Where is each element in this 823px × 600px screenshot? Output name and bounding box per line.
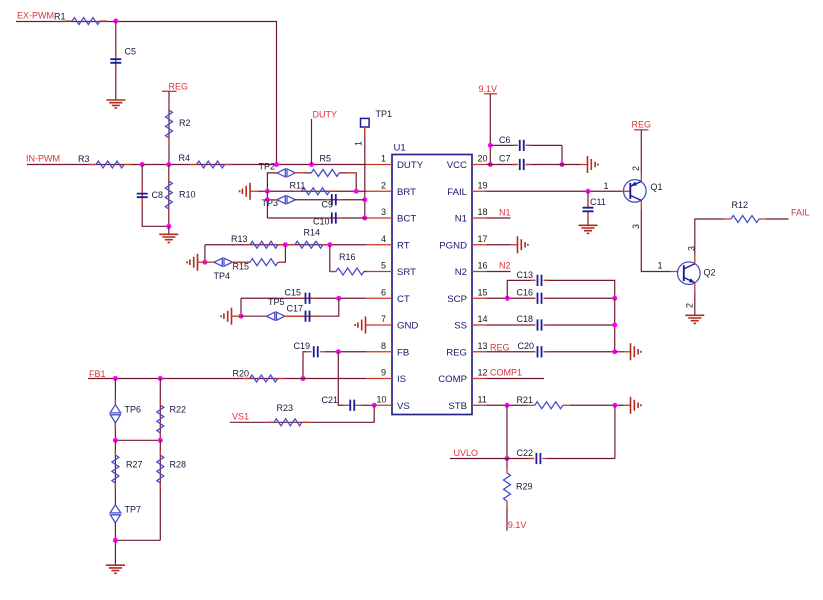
wire TP7 to bottom row (114, 522, 116, 540)
op-amp U1 IC body (392, 155, 472, 415)
svg-text:9.1V: 9.1V (479, 84, 498, 94)
pin 4 stub (366, 244, 392, 246)
junction R22/R28 (158, 438, 163, 443)
svg-text:R23: R23 (277, 403, 294, 413)
svg-text:IN-PWM: IN-PWM (26, 154, 60, 164)
wire TP6 to node row (114, 422, 116, 440)
svg-text:19: 19 (478, 180, 488, 190)
wire to bottom ground (114, 540, 116, 565)
test point TP4 (205, 261, 214, 263)
capacitor C8 (141, 188, 143, 203)
junction R2/R10 (166, 162, 171, 167)
net label N1 (487, 217, 511, 219)
resistor R12 (724, 218, 766, 220)
svg-text:17: 17 (478, 234, 488, 244)
resistor R27 (114, 440, 116, 505)
junction TP1/C9 (362, 197, 367, 202)
svg-text:SCP: SCP (447, 294, 467, 305)
svg-text:C15: C15 (285, 288, 302, 298)
junction C18 right (612, 323, 617, 328)
svg-text:2: 2 (631, 166, 641, 171)
junction C19/IS row (301, 376, 306, 381)
svg-text:R13: R13 (231, 234, 248, 244)
wire Q2 emitter to ground (694, 283, 696, 292)
capacitor C21 (344, 404, 361, 406)
svg-text:BRT: BRT (397, 187, 416, 198)
pin 8 stub (366, 351, 392, 353)
ground left of TP4 (187, 254, 197, 271)
junction FB1/R22 (158, 376, 163, 381)
wire C8 branch (142, 165, 169, 227)
wire SCP row (487, 297, 615, 299)
capacitor C10 (325, 217, 343, 219)
wire to ground (168, 226, 170, 234)
wire FB row (325, 351, 366, 353)
svg-text:R22: R22 (170, 404, 187, 414)
svg-text:20: 20 (478, 154, 488, 164)
junction TP6/R27 (113, 438, 118, 443)
capacitor C7 (487, 164, 563, 166)
junction C20 right (612, 349, 617, 354)
wire BCT row (267, 217, 366, 219)
wire R13 left corner down (204, 245, 206, 262)
svg-text:3: 3 (381, 207, 386, 217)
ground bottom left (106, 565, 125, 573)
junction C16 right (612, 296, 617, 301)
svg-text:R12: R12 (732, 200, 749, 210)
svg-text:1: 1 (658, 261, 663, 271)
wire VS1 row (230, 405, 374, 422)
ground at PGND (487, 244, 511, 246)
wire bottom row (115, 539, 160, 541)
svg-text:R29: R29 (516, 482, 533, 492)
svg-text:R28: R28 (170, 460, 187, 470)
pin 12 stub (472, 378, 487, 380)
wire C22 right column (614, 405, 616, 458)
test point TP7 (110, 505, 121, 523)
wire R21 to ground (570, 404, 624, 406)
wire to VCC ground (562, 164, 581, 166)
resistor R29 (506, 459, 508, 468)
pin 14 stub (472, 324, 487, 326)
pin 16 stub (472, 271, 487, 273)
capacitor C20 (487, 351, 615, 353)
svg-text:VCC: VCC (447, 160, 467, 171)
svg-text:RT: RT (397, 240, 410, 251)
svg-text:12: 12 (478, 368, 488, 378)
ground under C5 (106, 100, 125, 108)
pin numbers left (376, 154, 386, 405)
svg-text:FB1: FB1 (89, 369, 106, 379)
pin 13 stub (472, 351, 487, 353)
svg-text:UVLO: UVLO (454, 448, 479, 458)
junction VS/R23 (372, 403, 377, 408)
svg-text:R15: R15 (233, 262, 250, 272)
wire R16 branch (330, 245, 336, 272)
transistor Q2 (678, 262, 701, 285)
svg-text:9: 9 (381, 368, 386, 378)
svg-text:TP4: TP4 (214, 271, 231, 281)
svg-text:C18: C18 (517, 314, 534, 324)
svg-text:C11: C11 (590, 197, 606, 207)
svg-text:C13: C13 (517, 270, 534, 280)
svg-text:3: 3 (631, 224, 641, 229)
junction TP2 net / ground (265, 189, 270, 194)
resistor R5 (294, 173, 356, 191)
svg-text:R11: R11 (290, 181, 306, 191)
resistor R20 (243, 378, 285, 380)
resistor R14 (288, 244, 330, 246)
resistor R4 (190, 164, 232, 166)
junction C7 right (560, 162, 565, 167)
svg-text:C20: C20 (518, 341, 535, 351)
svg-text:C22: C22 (517, 448, 534, 458)
pin 1 stub (366, 164, 392, 166)
junction SCP/C13 (505, 296, 510, 301)
svg-text:C16: C16 (517, 287, 534, 297)
junction R10 bottom (166, 224, 171, 229)
capacitor C11 (587, 191, 589, 225)
ground left of R11 (240, 183, 250, 200)
capacitor C17 (284, 298, 339, 316)
wire TP1 down (364, 127, 366, 218)
junction C8 top (140, 162, 145, 167)
svg-text:SRT: SRT (397, 267, 416, 278)
svg-text:R14: R14 (304, 228, 321, 238)
wire TP3 to C9 (294, 199, 365, 201)
svg-text:11: 11 (478, 394, 487, 404)
resistor R28 (159, 440, 161, 540)
svg-text:13: 13 (478, 341, 488, 351)
svg-text:PGND: PGND (439, 240, 467, 251)
wire R29 down (506, 507, 508, 531)
junction C19/FB (336, 349, 341, 354)
svg-text:C21: C21 (322, 395, 339, 405)
svg-text:STB: STB (448, 401, 467, 412)
junction STB/R29 (505, 403, 510, 408)
svg-text:REG: REG (446, 347, 467, 358)
svg-text:C7: C7 (499, 154, 511, 164)
capacitor C15 (299, 297, 317, 299)
junction TP1/C10 (362, 216, 367, 221)
svg-text:FB: FB (397, 347, 409, 358)
svg-text:1: 1 (604, 181, 609, 191)
pin 15 stub (472, 297, 487, 299)
svg-text:Q1: Q1 (651, 182, 663, 192)
junction VCC (488, 162, 493, 167)
resistor R23 (267, 421, 309, 423)
pin 20 stub (472, 164, 487, 166)
pin names left (397, 160, 424, 412)
svg-text:REG: REG (169, 82, 189, 92)
junction C6 (488, 143, 493, 148)
svg-text:VS1: VS1 (232, 412, 249, 422)
wire STB column down (506, 405, 508, 458)
svg-text:TP5: TP5 (268, 297, 285, 307)
junction R13/R14 (283, 242, 288, 247)
wire DUTY (311, 119, 313, 165)
svg-text:GND: GND (397, 321, 418, 332)
net label COMP1 (487, 378, 545, 380)
pin names right (438, 160, 467, 412)
pin 17 stub (472, 244, 487, 246)
resistor R21 (528, 404, 570, 406)
pin 2 stub (366, 190, 392, 192)
junction TP5/ground (239, 314, 244, 319)
svg-text:R20: R20 (233, 369, 250, 379)
svg-text:C19: C19 (294, 341, 311, 351)
pin 10 stub (374, 404, 392, 406)
ground right of R21 (631, 397, 641, 414)
svg-text:9.1V: 9.1V (508, 520, 527, 530)
svg-text:U1: U1 (394, 143, 406, 154)
svg-text:TP6: TP6 (125, 404, 142, 414)
pin 3 stub (366, 217, 392, 219)
svg-text:EX-PWM: EX-PWM (17, 11, 54, 21)
wire ground column down to BCT row (266, 191, 268, 218)
wire RT row (205, 244, 366, 246)
ground left of TP5 (221, 308, 231, 325)
resistor R2 (168, 104, 170, 145)
junction R21 right (612, 403, 617, 408)
ground under Q2 (685, 315, 704, 323)
resistor R22 (159, 379, 161, 441)
pin 18 stub (472, 217, 487, 219)
junction R5/BRT (354, 189, 359, 194)
svg-text:DUTY: DUTY (397, 160, 424, 171)
wire C15 corner down to TP5 row (240, 298, 242, 316)
svg-text:SS: SS (454, 321, 467, 332)
capacitor C5 (115, 53, 117, 70)
wire C5 branch (115, 21, 117, 100)
wire Q2 collector up to R12 row (694, 255, 696, 264)
wire REG to row1 (168, 91, 170, 164)
resistor R16 (330, 271, 368, 273)
junction UVLO/R29 (505, 456, 510, 461)
svg-text:C6: C6 (499, 135, 511, 145)
svg-text:TP7: TP7 (125, 504, 142, 514)
junction EX-PWM/C5 (113, 19, 118, 24)
svg-text:R3: R3 (78, 154, 90, 164)
pin 11 stub (472, 404, 487, 406)
capacitor C22 (529, 458, 547, 460)
resistor R10 (168, 165, 170, 227)
wire BRT row (258, 190, 366, 192)
capacitor C9 (325, 199, 343, 201)
junction C17/CT (336, 296, 341, 301)
resistor R1 (65, 20, 107, 22)
svg-text:R27: R27 (126, 460, 143, 470)
wire right column down (614, 298, 616, 352)
svg-text:R21: R21 (517, 395, 534, 405)
wire UVLO row (450, 458, 615, 460)
ground under R10 (159, 234, 178, 242)
wire C6 right corner (561, 145, 563, 164)
svg-text:TP2: TP2 (259, 162, 276, 172)
pin 5 stub (366, 271, 392, 273)
wire 9.1V down (489, 94, 491, 165)
svg-text:2: 2 (685, 303, 695, 308)
wire FB branch down to C21 (338, 352, 344, 406)
svg-text:R16: R16 (339, 252, 356, 262)
resistor R3 (89, 164, 131, 166)
svg-text:REG: REG (490, 342, 510, 352)
ground at GND pin 7 (355, 317, 365, 334)
svg-text:N1: N1 (455, 214, 467, 225)
wire IN-PWM row to pin 1 (27, 164, 366, 166)
svg-text:Q2: Q2 (704, 268, 716, 278)
svg-text:IS: IS (397, 374, 406, 385)
wire CT row (241, 297, 366, 299)
wire REG to Q1 emitter (640, 130, 642, 173)
svg-text:1: 1 (381, 154, 386, 164)
svg-text:16: 16 (478, 261, 488, 271)
transistor Q1 (624, 180, 647, 203)
svg-text:1: 1 (354, 141, 364, 146)
svg-text:8: 8 (381, 341, 386, 351)
svg-text:C17: C17 (287, 304, 304, 314)
svg-text:18: 18 (478, 207, 488, 217)
svg-text:N1: N1 (499, 207, 511, 217)
ground right of C7 (588, 156, 598, 173)
svg-text:FAIL: FAIL (791, 208, 810, 218)
svg-text:BCT: BCT (397, 214, 416, 225)
svg-text:C8: C8 (152, 190, 164, 200)
test point TP1 (361, 118, 370, 127)
svg-text:COMP1: COMP1 (490, 368, 522, 378)
wire TP2 left to R11 row (267, 173, 277, 191)
junction EX-PWM column (274, 162, 279, 167)
svg-text:C9: C9 (322, 200, 334, 210)
svg-text:FAIL: FAIL (447, 187, 467, 198)
svg-text:VS: VS (397, 401, 410, 412)
wire STB row (487, 404, 528, 406)
wire IS row (88, 378, 366, 380)
wire EX-PWM row (16, 22, 277, 165)
resistor R15 (231, 245, 285, 262)
junction R14/R16 (327, 242, 332, 247)
svg-text:6: 6 (381, 287, 386, 297)
wire C21 to VS pin (361, 404, 374, 406)
svg-text:4: 4 (381, 234, 386, 244)
ground under C11 (579, 225, 598, 233)
net label N2 (487, 271, 511, 273)
wire Q1 collector down to Q2 base (640, 200, 642, 209)
svg-text:C10: C10 (313, 217, 330, 227)
ground right of C20 (615, 351, 624, 353)
pin 7 stub (366, 324, 393, 326)
junction TP3 (265, 197, 270, 202)
svg-text:R4: R4 (179, 153, 191, 163)
svg-text:N2: N2 (455, 267, 467, 278)
svg-text:R5: R5 (320, 154, 332, 164)
svg-text:7: 7 (381, 314, 386, 324)
svg-text:CT: CT (397, 294, 410, 305)
svg-text:R2: R2 (179, 118, 191, 128)
svg-text:2: 2 (381, 180, 386, 190)
pin 19 stub (472, 190, 487, 192)
svg-text:COMP: COMP (438, 374, 467, 385)
pin numbers right (478, 154, 488, 405)
junction FB1/TP6 (113, 376, 118, 381)
capacitor C18 (487, 324, 615, 326)
svg-text:R1: R1 (54, 12, 66, 22)
junction DUTY column (309, 162, 314, 167)
capacitor C13 (507, 280, 614, 298)
svg-text:TP1: TP1 (376, 109, 393, 119)
wire node row (115, 439, 160, 441)
wire FAIL row to Q1 (487, 190, 622, 192)
svg-text:5: 5 (381, 261, 386, 271)
junction C11 (586, 189, 591, 194)
resistor R11 (295, 190, 337, 192)
svg-text:DUTY: DUTY (313, 110, 338, 120)
wire to FAIL label (766, 218, 789, 220)
resistor R13 (243, 244, 285, 246)
svg-text:REG: REG (632, 120, 652, 130)
capacitor C6 (490, 144, 562, 146)
test point TP6 (110, 405, 121, 423)
capacitor C16 (531, 297, 549, 299)
svg-text:15: 15 (478, 287, 488, 297)
svg-text:R10: R10 (179, 190, 196, 200)
pin 6 stub (366, 297, 392, 299)
junction TP4/ground (202, 260, 207, 265)
svg-text:10: 10 (376, 394, 386, 404)
wire TP6 branch (114, 379, 116, 405)
pin 9 stub (366, 378, 392, 380)
svg-text:14: 14 (478, 314, 488, 324)
svg-text:C5: C5 (125, 47, 137, 57)
junction bottom (113, 538, 118, 543)
svg-text:N2: N2 (499, 260, 511, 270)
